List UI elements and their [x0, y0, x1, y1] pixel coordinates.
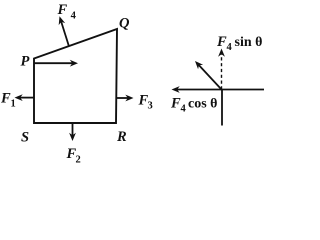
- force F2 arrow pointing down: [72, 124, 74, 137]
- F4 resultant diagonal arrow: [198, 65, 222, 90]
- svg-text:4: 4: [227, 42, 233, 53]
- F4 sin-theta dashed vertical arrow: [221, 53, 223, 90]
- right diagram: vertical axis below origin: [221, 90, 223, 126]
- svg-text:F: F: [0, 91, 11, 107]
- svg-text:4: 4: [181, 104, 187, 115]
- svg-text:sin θ: sin θ: [235, 35, 263, 50]
- svg-text:P: P: [21, 54, 30, 70]
- svg-text:3: 3: [148, 101, 153, 112]
- F4 cos-theta arrowhead: [172, 86, 180, 93]
- svg-text:F: F: [170, 96, 181, 112]
- svg-text:F: F: [216, 34, 227, 50]
- svg-text:1: 1: [11, 99, 16, 110]
- force F1 arrow pointing left: [19, 97, 33, 99]
- svg-text:cos θ: cos θ: [188, 97, 217, 112]
- svg-text:F: F: [57, 2, 68, 18]
- right diagram: horizontal axis line: [176, 89, 264, 91]
- svg-text:R: R: [116, 129, 127, 145]
- plate PQRS (quadrilateral): [34, 29, 117, 123]
- svg-text:Q: Q: [119, 16, 130, 32]
- svg-text:2: 2: [76, 155, 81, 166]
- svg-text:S: S: [21, 130, 29, 146]
- arrow at P pointing right: [35, 62, 74, 64]
- force F4 arrow on edge PQ: [61, 21, 69, 47]
- force F3 arrow pointing right: [116, 97, 129, 99]
- svg-text:4: 4: [71, 11, 77, 22]
